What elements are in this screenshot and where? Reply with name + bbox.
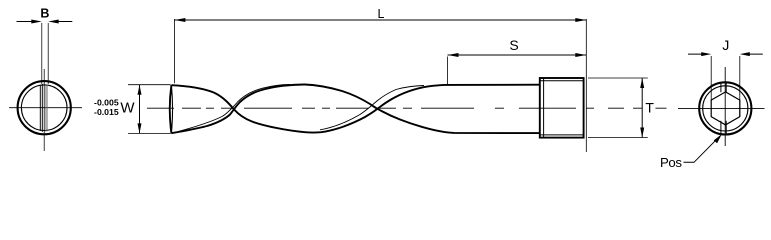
- svg-text:-0.015: -0.015: [94, 107, 119, 117]
- svg-text:L: L: [378, 7, 385, 21]
- svg-text:W: W: [120, 100, 135, 117]
- svg-text:S: S: [509, 37, 518, 53]
- svg-text:T: T: [645, 100, 654, 116]
- svg-text:J: J: [722, 38, 729, 54]
- svg-text:B: B: [40, 7, 49, 21]
- svg-text:-0.005: -0.005: [94, 97, 119, 107]
- svg-text:Pos: Pos: [660, 155, 682, 170]
